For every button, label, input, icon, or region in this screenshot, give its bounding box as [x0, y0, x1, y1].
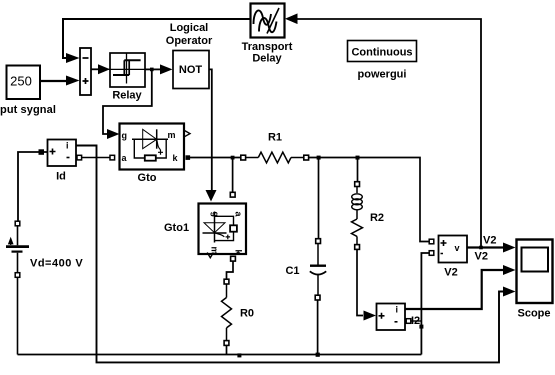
Gto1 k output port: [231, 256, 236, 261]
svg-text:C1: C1: [285, 265, 299, 277]
wire R1 to V2 plus: [309, 158, 429, 242]
arrowhead into transport delay right side: [286, 14, 298, 25]
arrow into I2 plus: [364, 311, 377, 321]
sum block: [80, 48, 91, 95]
svg-text:i: i: [396, 305, 399, 315]
powergui block: [348, 41, 417, 62]
I2 block (current measurement): [377, 304, 406, 331]
svg-text:Gto: Gto: [138, 172, 157, 184]
svg-text:Relay: Relay: [112, 90, 142, 102]
svg-text:Continuous: Continuous: [351, 47, 412, 59]
Gto block: [120, 124, 185, 170]
label Logical Operator: [166, 22, 213, 47]
svg-text:R0: R0: [240, 308, 254, 320]
wire constant to sum plus: [40, 76, 80, 86]
svg-text:m: m: [210, 247, 220, 255]
junction I2/V2 minus: [419, 325, 423, 329]
wire NOT output down to Gto1 gate: [206, 69, 217, 201]
svg-text:250: 250: [10, 74, 32, 89]
wire branch down to Gto1 anode: [230, 158, 235, 198]
svg-text:Id: Id: [56, 171, 66, 183]
svg-text:g: g: [122, 131, 128, 141]
svg-text:put sygnal: put sygnal: [0, 104, 56, 116]
wire V2 output to Scope input 1: [467, 243, 516, 253]
svg-text:Operator: Operator: [166, 35, 213, 47]
svg-text:R1: R1: [268, 132, 282, 144]
svg-text:V2: V2: [444, 267, 457, 279]
wire sum output to relay: [91, 64, 110, 74]
junction V2 output feedback branch: [479, 246, 483, 250]
svg-text:Scope: Scope: [517, 308, 550, 320]
relay block: [107, 53, 148, 87]
scope block: [517, 240, 553, 304]
NOT block (Logical Operator): [173, 51, 209, 89]
wire I2 output to Scope input 2: [405, 265, 516, 309]
svg-text:V2: V2: [483, 235, 496, 247]
svg-text:i: i: [66, 141, 69, 151]
junction Gto k / Gto1 branch: [231, 156, 235, 160]
Gto m output open arrow: [185, 131, 191, 137]
junction R2 branch: [356, 156, 360, 160]
wire Id minus to Gto anode: [77, 155, 115, 160]
svg-text:Gto1: Gto1: [164, 222, 189, 234]
svg-text:NOT: NOT: [179, 64, 203, 76]
resistor R1: [241, 152, 309, 163]
wire branch relay output to Gto gate: [103, 69, 152, 139]
Gto k output port: [186, 155, 191, 160]
wire I2 minus to ground rail: [406, 319, 421, 324]
wire V2 minus down to bottom bus: [421, 253, 429, 355]
wire transport delay output to sum minus: [63, 19, 250, 63]
svg-text:m: m: [168, 130, 176, 140]
bottom ground bus: [18, 354, 422, 356]
junction R0 bus: [237, 353, 241, 357]
V2 block (voltage measurement): [439, 236, 468, 263]
svg-text:Vd=400 V: Vd=400 V: [30, 258, 83, 270]
svg-text:R2: R2: [370, 212, 384, 224]
svg-text:Delay: Delay: [252, 53, 282, 65]
wire Id measurement output to bottom bus to Scope input 3: [76, 146, 516, 363]
Gto1 block (rotated): [199, 204, 247, 256]
RL branch R2: [352, 158, 364, 316]
svg-text:Logical: Logical: [170, 22, 209, 34]
Gto1 unconnected m output open arrow: [207, 253, 213, 258]
V2 minus input port: [429, 251, 434, 256]
capacitor C1: [310, 158, 326, 355]
wire feedback top: from V2 node up and left to Transport Delay input: [285, 14, 481, 248]
junction C1 bottom bus: [316, 353, 320, 357]
svg-text:v: v: [455, 243, 460, 253]
wire Gto k to R1: [190, 157, 241, 159]
svg-text:powergui: powergui: [358, 69, 407, 81]
junction on relay-NOT wire: [150, 68, 154, 72]
DC source Vd battery: [6, 221, 29, 354]
constant block 250: [7, 66, 41, 100]
svg-text:Transport: Transport: [242, 41, 293, 53]
wire relay to NOT: [145, 64, 173, 74]
wire left rail to Id plus: [18, 149, 47, 221]
transport delay block: [251, 4, 285, 38]
svg-text:V2: V2: [475, 251, 488, 263]
resistor R0: [222, 279, 232, 354]
label Transport Delay: [242, 41, 293, 65]
Id block (current measurement): [48, 140, 77, 167]
wire Gto1 k to R0: [227, 261, 234, 279]
V2 plus input port: [429, 239, 434, 244]
junction C1 branch: [317, 156, 321, 160]
